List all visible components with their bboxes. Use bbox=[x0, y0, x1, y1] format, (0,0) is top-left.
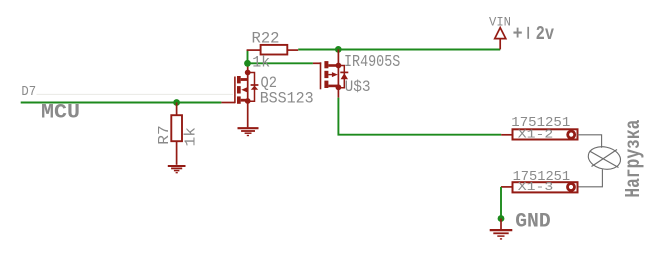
source-drain vertical line bbox=[337, 49, 339, 97]
svg-text:MCU: MCU bbox=[41, 101, 80, 124]
label +12v bbox=[513, 23, 555, 45]
channel segment top bbox=[237, 76, 241, 83]
svg-text:Нагрузка: Нагрузка bbox=[623, 119, 646, 197]
svg-text:2v: 2v bbox=[536, 23, 555, 45]
svg-text:VIN: VIN bbox=[489, 15, 511, 30]
substrate arrow bbox=[241, 87, 247, 92]
svg-text:+: + bbox=[513, 23, 523, 45]
transistor U$3 (IR4905S p-mosfet) bbox=[313, 49, 348, 97]
body diode wiring bbox=[248, 73, 255, 102]
load lamp symbol bbox=[586, 144, 622, 172]
substrate arrow bbox=[332, 72, 338, 77]
connector X1-2 bbox=[513, 129, 578, 139]
source node dot bbox=[245, 98, 251, 104]
substrate stub line bbox=[328, 74, 332, 76]
wire load lamp to X1-3 bbox=[578, 169, 603, 187]
drain node dot bbox=[245, 70, 251, 76]
svg-text:U$3: U$3 bbox=[345, 78, 371, 96]
body diode triangle bbox=[251, 86, 258, 90]
wire U$3 drain to X1-2 bbox=[338, 98, 501, 135]
channel segment top bbox=[324, 61, 328, 68]
drain-source vertical line bbox=[247, 63, 249, 127]
body diode triangle bbox=[341, 73, 348, 79]
wire junction to U$3 gate bbox=[248, 62, 313, 64]
svg-text:R22: R22 bbox=[252, 30, 280, 48]
ground symbol below Q2 bbox=[238, 128, 259, 135]
wire X1-2 to load lamp bbox=[578, 135, 602, 148]
gate lead bbox=[313, 62, 321, 64]
svg-text:1k: 1k bbox=[252, 53, 270, 71]
resistor R7 bbox=[171, 103, 182, 165]
gate lead bbox=[221, 102, 235, 104]
net label line D7 bbox=[37, 93, 234, 95]
source stub bbox=[328, 64, 338, 67]
svg-text:X1-2: X1-2 bbox=[518, 128, 554, 142]
ground stem GND bbox=[500, 219, 502, 230]
lead wire into X1-2 bbox=[501, 134, 512, 136]
svg-text:1k: 1k bbox=[183, 127, 199, 147]
body diode cathode bar bbox=[251, 84, 259, 86]
wire X1-3 to GND bbox=[500, 187, 502, 219]
drain stub bbox=[241, 78, 248, 81]
junction node GND bbox=[498, 215, 505, 222]
svg-text:GND: GND bbox=[515, 211, 551, 234]
body diode wiring bbox=[338, 66, 344, 88]
source node dot bbox=[336, 63, 342, 69]
channel segment middle bbox=[237, 86, 241, 93]
wire R22 to VIN bbox=[298, 49, 500, 51]
source stub bbox=[241, 99, 248, 102]
junction node Q2 drain / R22 / U$3 gate bbox=[244, 60, 251, 67]
connector X1-3 bbox=[513, 182, 578, 192]
ground symbol below R7 bbox=[168, 166, 186, 173]
svg-text:BSS123: BSS123 bbox=[260, 90, 314, 108]
junction node U$3 source on +12v rail bbox=[335, 46, 342, 53]
lead wire out of X1-3 bbox=[501, 186, 512, 188]
drain stub bbox=[328, 85, 338, 88]
svg-text:R7: R7 bbox=[157, 125, 173, 145]
ground symbol GND bbox=[490, 230, 513, 239]
channel segment bottom bbox=[237, 96, 241, 103]
drain node dot bbox=[336, 84, 342, 90]
junction node MCU/R7 bbox=[173, 99, 180, 106]
channel segment bottom bbox=[324, 81, 328, 88]
svg-text:X1-3: X1-3 bbox=[518, 180, 554, 194]
wire net MCU (D7 to Q2 gate) bbox=[21, 102, 222, 104]
gate plate bbox=[320, 62, 322, 89]
resistor R22 bbox=[247, 45, 299, 55]
supply symbol VIN bbox=[495, 28, 506, 50]
body diode cathode bar bbox=[340, 71, 348, 73]
svg-text:D7: D7 bbox=[21, 85, 36, 100]
channel segment middle bbox=[324, 71, 328, 78]
svg-text:IR4905S: IR4905S bbox=[344, 53, 400, 72]
transistor Q2 bbox=[221, 63, 258, 127]
gate plate bbox=[234, 77, 236, 104]
wire junction up to R22 bbox=[247, 50, 249, 63]
